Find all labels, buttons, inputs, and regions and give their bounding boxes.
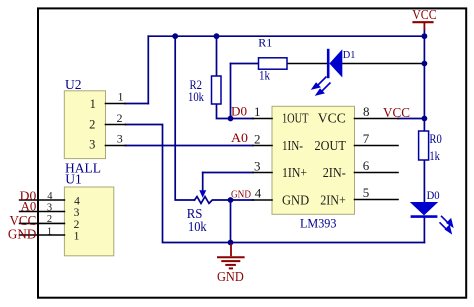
svg-text:2OUT: 2OUT [315,138,347,153]
svg-text:4: 4 [255,185,262,200]
svg-text:D1: D1 [343,49,356,61]
svg-text:1OUT: 1OUT [282,110,309,125]
svg-text:10k: 10k [188,219,207,234]
svg-text:1: 1 [118,90,124,104]
svg-text:1k: 1k [429,148,440,163]
svg-text:GND: GND [8,228,36,243]
svg-text:3: 3 [89,138,95,152]
svg-text:3: 3 [117,132,123,146]
svg-text:2IN-: 2IN- [323,165,347,180]
svg-text:2: 2 [47,214,52,225]
svg-text:1: 1 [254,104,261,119]
svg-text:A0: A0 [21,199,37,214]
svg-text:2: 2 [74,219,80,231]
svg-text:D0: D0 [427,188,440,202]
svg-text:VCC: VCC [412,8,437,23]
svg-text:D0: D0 [231,104,247,119]
svg-text:8: 8 [363,104,370,119]
svg-text:GND: GND [231,190,251,201]
svg-text:7: 7 [363,131,370,146]
svg-text:5: 5 [363,185,370,200]
svg-text:GND: GND [217,270,244,285]
svg-text:3: 3 [47,203,52,214]
svg-text:10k: 10k [188,89,204,104]
svg-text:U2: U2 [65,77,82,92]
svg-text:4: 4 [74,196,80,208]
svg-text:1: 1 [90,97,96,111]
svg-text:2: 2 [117,111,123,125]
svg-text:1k: 1k [259,68,271,82]
svg-text:A0: A0 [231,130,248,145]
svg-text:1: 1 [74,231,80,243]
svg-text:GND: GND [282,192,309,207]
svg-text:R0: R0 [429,131,441,146]
svg-text:2: 2 [254,132,261,147]
svg-text:1: 1 [47,226,52,237]
svg-text:LM393: LM393 [300,216,336,231]
svg-text:6: 6 [363,158,370,173]
svg-text:1IN-: 1IN- [282,138,303,153]
svg-text:VCC: VCC [383,106,410,121]
svg-text:3: 3 [254,159,261,174]
svg-text:4: 4 [47,191,53,202]
svg-text:VCC: VCC [318,110,346,125]
svg-text:1IN+: 1IN+ [282,165,307,180]
svg-text:R1: R1 [258,36,272,50]
svg-text:U1: U1 [65,171,82,186]
svg-text:2IN+: 2IN+ [320,192,346,207]
svg-text:2: 2 [89,118,95,132]
svg-text:3: 3 [74,207,80,219]
